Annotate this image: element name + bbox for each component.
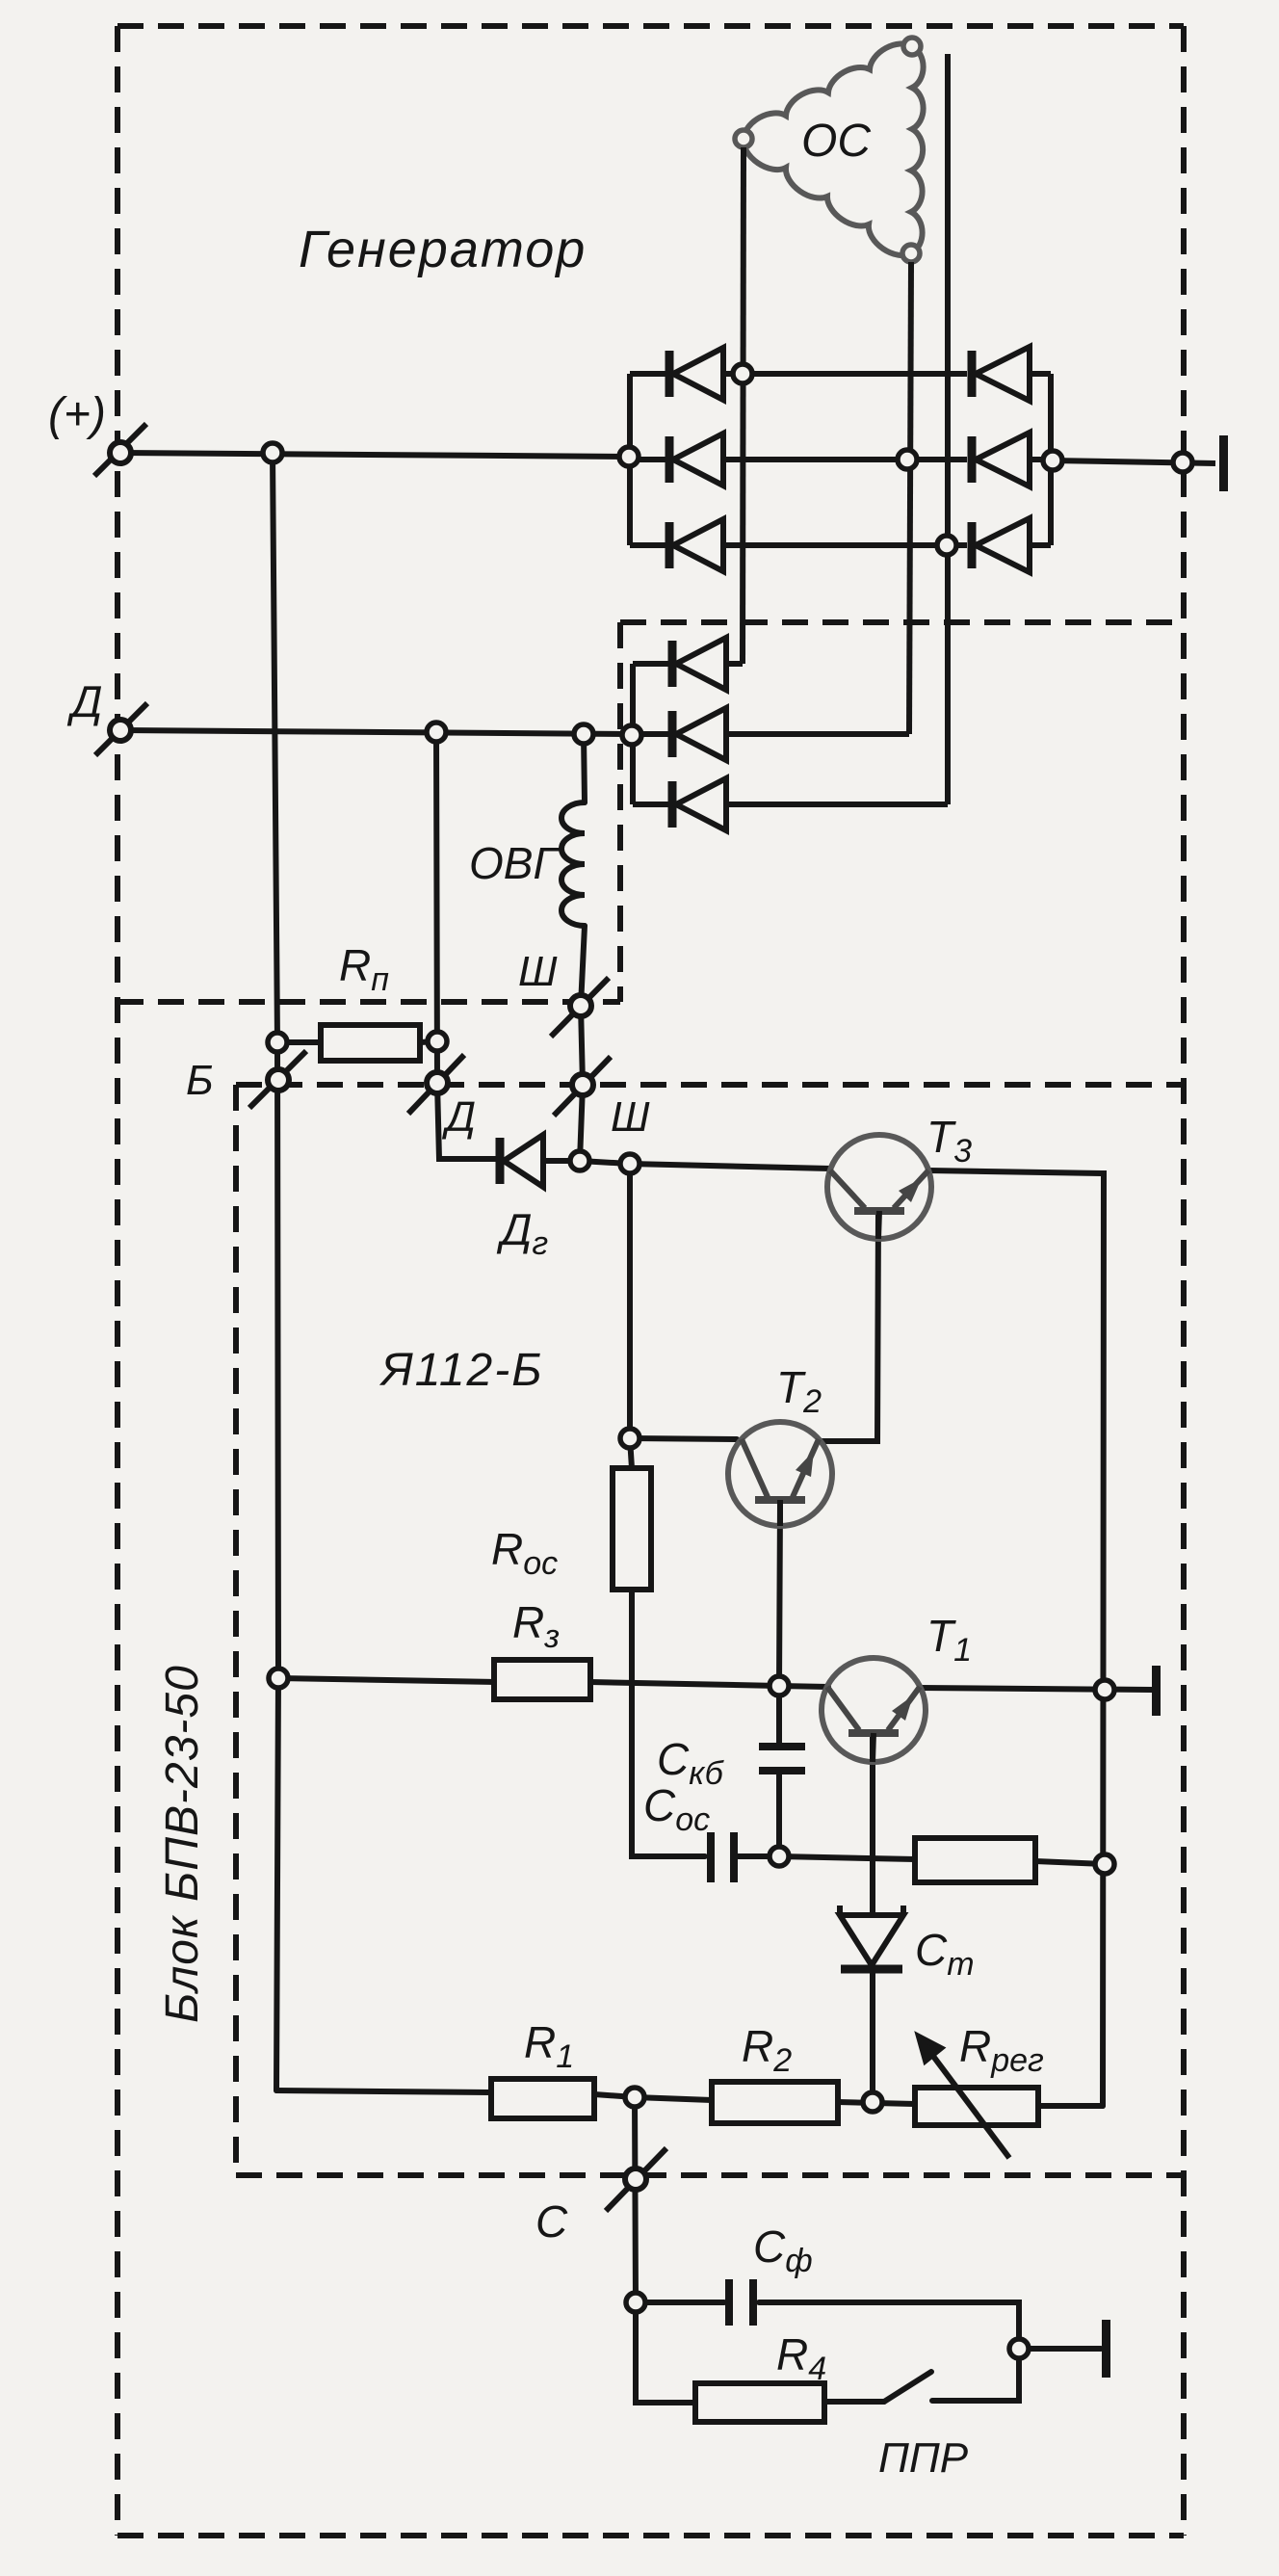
- terminal Д (lower) with slash: [408, 1055, 464, 1114]
- wire left mid vertical x=655: [630, 1164, 632, 1468]
- svg-text:(+): (+): [48, 389, 106, 440]
- zener Ст: [840, 1906, 903, 1969]
- resistor R4: [695, 2383, 824, 2422]
- node phase C row3: [937, 536, 956, 555]
- node Сф right/switch: [1009, 2339, 1029, 2358]
- capacitor Сф: [729, 2279, 753, 2326]
- diode VD5 (negative, phase B): [972, 433, 1051, 486]
- wire Rn left link: [277, 1039, 321, 1045]
- diode VD8 (field rectifier, phase B): [633, 708, 909, 760]
- wire Д bus y=760: [120, 730, 632, 734]
- wire T1 right to ground bar: [920, 1688, 1152, 1690]
- wire Дг anode to node: [543, 1158, 580, 1164]
- wire Roc bottom to Cос corner: [632, 1590, 705, 1856]
- node minus bus: [1043, 451, 1062, 470]
- Rрег adjustment arrow: [919, 2037, 1009, 2158]
- wire node to ground bar bottom: [1019, 2346, 1101, 2352]
- resistor R (feedback, unlabeled): [915, 1838, 1035, 1882]
- resistor Rос (vertical): [613, 1468, 651, 1590]
- terminal С with slash: [606, 2148, 666, 2211]
- diode Дг: [500, 1135, 543, 1187]
- wire T1 base down to Ст: [870, 1734, 875, 1915]
- wire Скб vertical: [776, 1686, 782, 1744]
- node ОС left vertex: [735, 130, 752, 147]
- wire node down to switch line: [932, 2349, 1019, 2401]
- wire T3 collector to right rail: [928, 1170, 1104, 2106]
- diode VD3 (positive, phase C): [630, 519, 967, 571]
- resistor R2: [712, 2082, 838, 2123]
- node Т1 emitter rail: [1095, 1680, 1114, 1699]
- svg-text:Д: Д: [66, 676, 102, 726]
- terminal Б with slash: [249, 1051, 306, 1108]
- node ОС top vertex: [903, 38, 921, 55]
- node Сос-R: [770, 1847, 789, 1866]
- svg-text:ОВГ: ОВГ: [469, 838, 560, 888]
- stator winding ОС (delta): [744, 43, 924, 255]
- svg-text:Я112-Б: Я112-Б: [378, 1345, 543, 1396]
- resistor Rп: [321, 1025, 420, 1061]
- node Д at Rn branch: [427, 723, 446, 742]
- wire OVG top lead: [584, 734, 585, 802]
- node Д at field bus: [622, 725, 641, 745]
- wire feedback resistor line: [779, 1856, 915, 1859]
- diode VD1 (positive, phase A): [630, 348, 967, 400]
- wire R4 to switch hinge: [824, 2399, 884, 2405]
- wire T2 feed: [630, 1438, 737, 1439]
- wire T2 base down: [779, 1503, 780, 1686]
- svg-text:Б: Б: [186, 1057, 214, 1104]
- node R right rail: [1095, 1854, 1114, 1874]
- wire Ш node to T3 emitter: [630, 1164, 830, 1169]
- wire Сф line: [636, 2300, 724, 2305]
- wire R1-R2 node links: [594, 2094, 635, 2097]
- terminal Ш (upper) with slash: [551, 978, 609, 1037]
- node Д at ОВГ: [574, 724, 593, 744]
- wire phase A vertical x=771: [743, 147, 744, 664]
- svg-text:Д: Д: [441, 1093, 476, 1141]
- node R1-R2: [625, 2088, 644, 2107]
- wire Сос right plate to node: [738, 1853, 779, 1859]
- wire positive diode bus: [627, 374, 633, 545]
- node base Т3 line: [620, 1154, 639, 1173]
- node phase A row1: [733, 364, 752, 383]
- node Rос top: [620, 1429, 639, 1448]
- wire phase C vertical x=984: [945, 54, 951, 804]
- svg-text:Ш: Ш: [518, 948, 558, 995]
- ground bar (bottom): [1102, 2320, 1110, 2378]
- svg-text:ППР: ППР: [878, 2434, 969, 2482]
- svg-text:Блок БПВ-23-50: Блок БПВ-23-50: [157, 1665, 208, 2023]
- node (+) branch: [263, 443, 282, 462]
- wire additional rectifier bus: [630, 664, 636, 804]
- resistor R3: [494, 1660, 590, 1699]
- wire node to T1: [779, 1686, 828, 1687]
- wire R2 to node to Rрег: [838, 2102, 915, 2104]
- ground bar (rectifier minus): [1219, 435, 1228, 491]
- wire Rрег right to rail corner: [1038, 2103, 1103, 2109]
- wire Rn right link: [420, 1041, 437, 1042]
- resistor R1: [491, 2079, 594, 2118]
- transistor Т2: [728, 1422, 832, 1526]
- svg-text:С: С: [535, 2196, 568, 2247]
- wire negative diode bus: [1048, 374, 1054, 545]
- terminal Ш (lower) with slash: [554, 1057, 611, 1116]
- node Ст-R2-Rрег: [863, 2092, 882, 2112]
- terminal Д with slash: [95, 703, 147, 755]
- diode VD6 (negative, phase C): [972, 518, 1051, 572]
- node phase B row2: [898, 450, 917, 469]
- capacitor Сос: [711, 1832, 734, 1882]
- svg-text:Генератор: Генератор: [299, 221, 587, 278]
- wire R1 feed horizontal: [276, 2090, 491, 2092]
- wire OVG bottom to Ш connectors chain: [580, 926, 585, 1161]
- wire С connector chain down: [635, 2097, 695, 2403]
- wire node to node at T3 line: [580, 1161, 630, 1164]
- wire R3 line: [278, 1678, 494, 1682]
- wire rectifier output to minus terminal: [1051, 460, 1215, 463]
- generator bottom partition dashed (step): [117, 622, 1184, 1002]
- wire T3 base down to T2: [820, 1212, 878, 1441]
- diode VD9 (field rectifier, phase C): [633, 778, 948, 830]
- transistor Т1: [822, 1658, 926, 1762]
- node ОС bottom vertex: [902, 245, 920, 262]
- node Сф left: [626, 2293, 645, 2312]
- junction nodes (open circles): [263, 364, 1192, 2358]
- node Дг anode: [570, 1151, 589, 1170]
- ground bar (regulator minus): [1152, 1666, 1161, 1716]
- node R3-Т2 base: [770, 1676, 789, 1695]
- node R3 left junction: [269, 1669, 288, 1688]
- terminal (+) with slash: [94, 424, 146, 476]
- wire phase B vertical x=944: [909, 262, 911, 734]
- node Rn right: [428, 1032, 447, 1051]
- node (+) at diode bus: [619, 447, 639, 466]
- wire Ст cathode down to R2 node: [870, 1973, 875, 2102]
- wire node D to Rn right vertical: [436, 732, 496, 1159]
- diode VD7 (field rectifier, phase A): [633, 638, 743, 690]
- capacitor Скб: [759, 1747, 805, 1771]
- diode VD2 (positive, phase B): [630, 434, 967, 486]
- resistor Rрег: [915, 2088, 1038, 2125]
- svg-text:ОС: ОС: [801, 116, 871, 167]
- transistor Т3: [827, 1135, 931, 1239]
- node Rn left: [268, 1033, 287, 1052]
- wire (+) bus y=470: [120, 453, 629, 457]
- node minus at border: [1173, 453, 1192, 472]
- diode VD4 (negative, phase A): [972, 347, 1051, 401]
- field winding OVG coil: [561, 802, 585, 926]
- switch ППР blade: [884, 2372, 931, 2402]
- regulator Я112-Б dashed box: [236, 1085, 1184, 2175]
- svg-text:Ш: Ш: [611, 1093, 650, 1141]
- wire left vertical from (+) node down to R1 corner: [273, 453, 278, 2090]
